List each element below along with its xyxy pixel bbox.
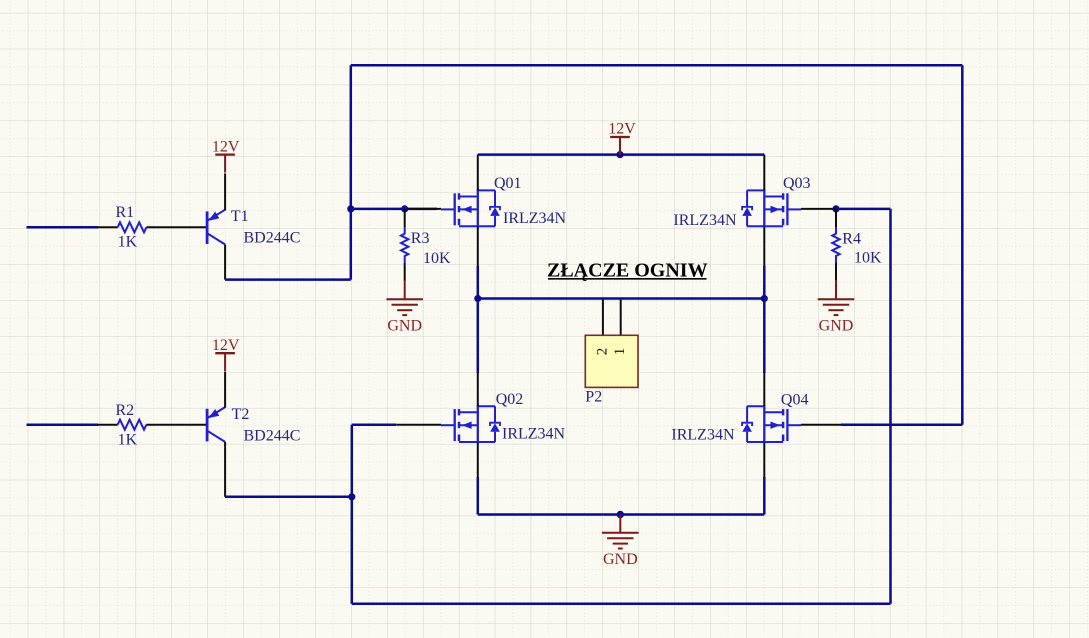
node: R4 tap (832, 205, 839, 212)
svg-text:GND: GND (603, 551, 638, 568)
svg-text:T2: T2 (232, 406, 250, 423)
wire: upper loop right vertical (961, 65, 964, 425)
wire: input 1 to R1 (27, 226, 99, 229)
node: 12V tap (616, 151, 623, 158)
wire: gate row 1 (351, 208, 437, 211)
wire: lower loop left vertical (351, 425, 354, 604)
wire: bridge top rail (478, 153, 765, 156)
MOSFET Q04 (742, 405, 801, 443)
Q03 gate pin (801, 208, 836, 210)
Q03 source pin (763, 227, 765, 267)
svg-text:GND: GND (387, 317, 422, 334)
resistor R4 pins (835, 209, 837, 281)
resistor R1 (118, 222, 147, 232)
Q01 drain pin (477, 155, 479, 191)
T2 collector pin (224, 442, 226, 497)
svg-text:R1: R1 (116, 204, 135, 221)
wire: upper loop top rail (351, 64, 963, 67)
svg-text:R3: R3 (411, 230, 430, 247)
svg-text:12V: 12V (608, 120, 636, 137)
wire: lower loop to Q03 gate row (836, 208, 891, 211)
MOSFET Q01 (441, 189, 500, 227)
wire: Q01 source to mid rail (477, 266, 480, 299)
node: Q01/Q02 mid junction (474, 295, 481, 302)
Q01 source pin (477, 227, 479, 267)
svg-text:IRLZ34N: IRLZ34N (671, 426, 735, 443)
ground GND bridge (602, 533, 639, 549)
wire: Q03 source to mid rail (763, 266, 766, 299)
svg-text:BD244C: BD244C (244, 428, 301, 445)
Q04 gate pin (801, 424, 841, 426)
connector P2 pin 1 wire (620, 300, 622, 336)
wire: Q04 source to bottom rail (763, 477, 766, 515)
svg-text:P2: P2 (585, 388, 602, 405)
svg-text:Q02: Q02 (496, 391, 524, 408)
svg-text:Q01: Q01 (494, 175, 522, 192)
svg-text:GND: GND (819, 317, 854, 334)
wire: T1 collector to left loop (225, 278, 351, 281)
wire: Q02 source to bottom rail (477, 477, 480, 515)
wire: bridge bottom rail (478, 513, 765, 516)
resistor R3 pins (404, 209, 406, 281)
wire: upper loop left vertical (350, 65, 353, 279)
T1 collector pin (224, 245, 226, 280)
connector P2 pin 2 wire (602, 300, 604, 336)
title underline (548, 278, 707, 280)
power port 12V for T1 (215, 155, 235, 173)
svg-text:R2: R2 (116, 402, 135, 419)
svg-text:2: 2 (594, 348, 610, 356)
transistor T2 (207, 407, 225, 442)
wire: Q02 gate row (352, 423, 397, 426)
wire: mid rail to Q04 drain (763, 299, 766, 374)
node: T2 collector junction (348, 493, 355, 500)
ground GND R3 (386, 299, 423, 315)
power port 12V for T2 (215, 353, 235, 371)
wire: lower loop right vertical (889, 209, 892, 604)
T2 emitter pin (224, 372, 226, 408)
node: junction on left vertical (347, 205, 354, 212)
svg-text:Q04: Q04 (781, 392, 809, 409)
ground stub bridge (619, 515, 621, 533)
svg-text:IRLZ34N: IRLZ34N (503, 210, 567, 227)
ground stub R3 (404, 280, 406, 298)
Q02 drain pin (477, 372, 479, 406)
Q03 drain pin (763, 155, 765, 191)
node: Q03/Q04 mid junction (761, 295, 768, 302)
MOSFET Q02 (441, 405, 500, 443)
svg-text:1: 1 (612, 348, 628, 356)
svg-text:T1: T1 (231, 208, 249, 225)
Q01 gate pin (407, 208, 441, 210)
svg-text:1K: 1K (118, 233, 138, 250)
svg-text:Q03: Q03 (783, 175, 811, 192)
node: GND tap (617, 511, 624, 518)
svg-text:IRLZ34N: IRLZ34N (673, 212, 737, 229)
wire: lower loop bottom rail (352, 603, 891, 606)
svg-text:10K: 10K (423, 250, 451, 267)
resistor R1 pins (97, 226, 206, 228)
svg-text:IRLZ34N: IRLZ34N (502, 425, 566, 442)
Q02 gate pin (396, 424, 441, 426)
ground GND R4 (818, 299, 855, 315)
wire: upper loop to Q04 gate (841, 423, 962, 426)
svg-text:R4: R4 (842, 231, 861, 248)
svg-text:1K: 1K (118, 431, 138, 448)
resistor R2 pins (97, 424, 206, 426)
svg-text:12V: 12V (212, 138, 240, 155)
resistor R4 (832, 228, 839, 263)
wire: T2 collector to lower loop (225, 496, 352, 499)
resistor R2 (118, 420, 147, 430)
T1 emitter pin (224, 173, 226, 210)
power port 12V bridge (610, 137, 630, 155)
MOSFET Q03 (742, 189, 801, 227)
svg-text:10K: 10K (854, 249, 882, 266)
wire: bridge middle rail (478, 297, 765, 300)
node: R3 tap (401, 205, 408, 212)
wire: input 2 to R2 (27, 423, 99, 426)
svg-text:BD244C: BD244C (244, 229, 301, 246)
Q02 source pin (477, 443, 479, 478)
connector P2 body (585, 335, 638, 387)
wire: mid rail to Q02 drain (477, 299, 480, 374)
resistor R3 (401, 228, 408, 263)
Q04 source pin (763, 443, 765, 478)
transistor T1 (207, 210, 225, 245)
Q04 drain pin (763, 372, 765, 406)
svg-text:12V: 12V (212, 337, 240, 354)
ground stub R4 (835, 280, 837, 298)
